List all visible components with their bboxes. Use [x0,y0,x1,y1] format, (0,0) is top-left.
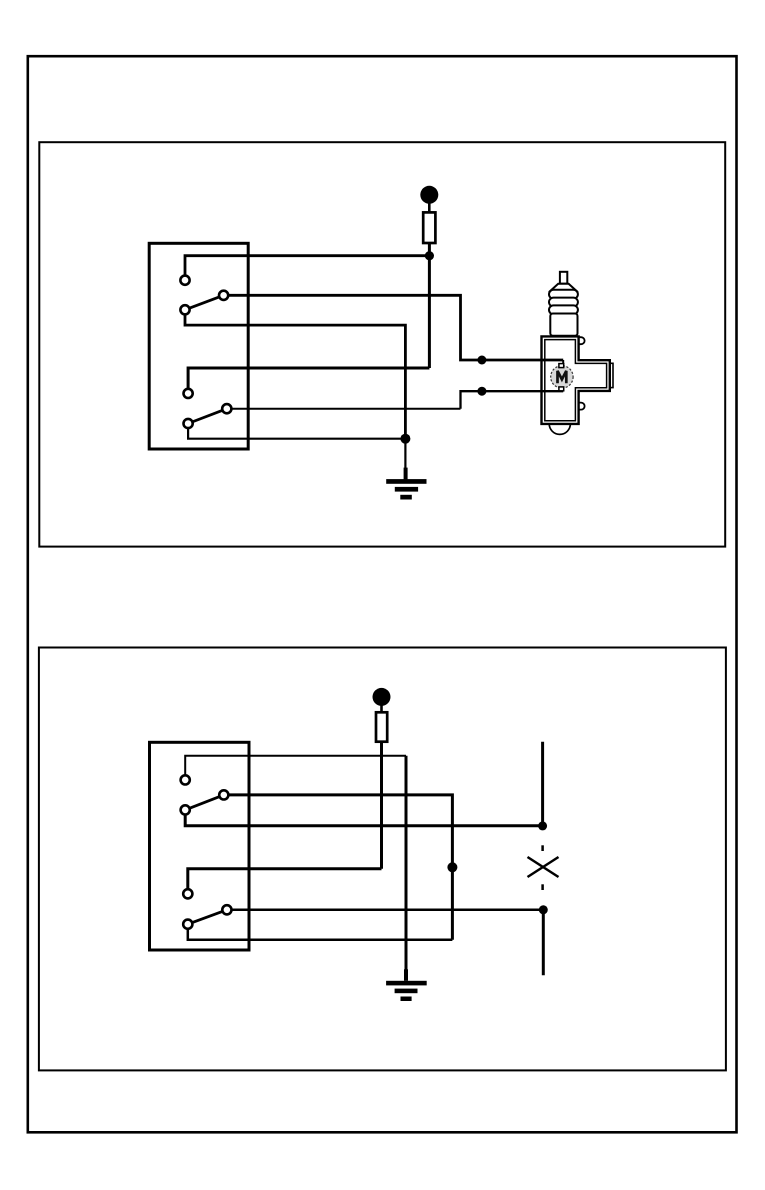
connector node upper [538,821,547,830]
lead from B+ to fuse [380,704,383,713]
actuator body outer [542,336,610,424]
terminal t1b [181,775,190,784]
actuator end nub [609,363,613,387]
bottom diagram panel border [39,648,726,1071]
wire ground rail vertical [405,756,408,971]
actuator bellows section 2 [549,298,578,307]
connector contact line upper [541,742,544,826]
motor M circle [551,366,573,388]
junction dot motor upper lead [477,356,486,365]
ground symbol top diagram [386,468,426,500]
wire lower arm to motor lower terminal [227,408,461,410]
wire upper arm to motor upper terminal [224,295,564,360]
wire t3 feed horizontal [188,869,382,894]
junction node ground [400,434,410,444]
wire riser to motor lower terminal [461,391,564,409]
switch arm lower (t4 to throw) [188,910,227,924]
connector node lower [539,905,548,914]
actuator bellows section 1 [549,290,578,299]
wire node A down to lower-switch feed [428,256,431,368]
wire t2 to connector upper contact [185,810,542,826]
top diagram panel border [39,142,725,546]
wire t4 to ground node [188,424,405,439]
wire upper arm loop right [224,795,453,940]
junction node A [425,251,434,260]
ground symbol bottom diagram [386,969,427,1001]
wire stub into motor top terminal [562,360,564,365]
broken-link dash upper [541,845,544,851]
switch box S2 [150,742,250,950]
battery feed terminal (B+) bottom diagram [373,688,391,706]
wire stub into motor bottom terminal [562,388,564,392]
broken-link dash lower [541,884,544,890]
broken-link X stroke 1 [528,857,559,877]
terminal t4b [183,920,192,929]
wire t1 to ground rail (thin top run) [185,756,406,780]
fuse F2 [376,712,387,741]
lead from B+ to fuse [428,202,431,213]
wire t4 run to loop bottom [188,924,453,940]
actuator bottom dome [549,424,570,435]
terminal t3b [183,889,192,898]
door-lock actuator shell [542,272,614,435]
connector contact line lower [542,910,545,976]
throw contact upper b [219,790,228,799]
actuator clip top [579,337,585,344]
motor bottom terminal [559,387,564,391]
switch arm lower (t4 to throw) [188,409,227,424]
actuator bellows section 3 [549,305,578,314]
wire t3 feed from supply [188,368,429,393]
terminal t4 [184,419,193,428]
broken-link X stroke 2 [528,857,559,877]
terminal t2b [181,805,190,814]
throw contact lower b [222,905,231,914]
actuator clip bottom [579,403,585,410]
terminal t1 [180,276,189,285]
throw contact upper [219,291,228,300]
actuator body inner line [545,340,607,421]
fuse F1 [423,212,435,243]
switch arm upper (t2 to throw) [185,295,224,310]
wire t1 to node A [185,256,429,280]
switch box S1 [149,243,248,449]
throw contact lower [222,404,231,413]
wire ground stem [404,439,406,469]
wire from fuse to node A [428,243,431,256]
actuator funnel [551,284,577,291]
wire lower arm to connector lower contact [227,909,543,912]
motor top terminal [559,364,564,368]
junction dot on arm loop [447,862,457,872]
wire t2 to ground rail [185,310,405,439]
switch arm upper (t2 to throw) [185,795,224,810]
motor label M [558,371,567,383]
actuator stem [560,272,567,284]
battery feed terminal (B+) [420,186,438,204]
actuator neck cylinder [550,314,577,336]
terminal t3 [184,389,193,398]
terminal t2 [180,305,189,314]
junction dot motor lower lead [477,387,486,396]
wire fuse down to t3 feed [380,742,383,869]
